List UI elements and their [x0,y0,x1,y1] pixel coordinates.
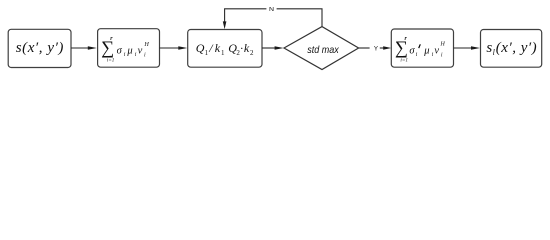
block B2 SVD sum [98,29,160,67]
svg-text:std max: std max [307,44,339,56]
svg-text:μ: μ [126,45,132,56]
svg-text:∑: ∑ [395,38,408,58]
svg-text:i=1: i=1 [400,58,408,64]
svg-text:2: 2 [250,49,254,57]
block B3 thresholds Q1/k1 Q2*k2 [188,30,262,68]
svg-text:k: k [215,41,221,55]
svg-text:ν: ν [138,45,143,56]
svg-text:1: 1 [221,49,225,57]
wire arrow A3 B3 to decision [262,47,275,49]
svg-text:i=1: i=1 [107,58,115,64]
svg-text:ν: ν [434,45,439,56]
wire arrow A5 B5 to B6 [454,47,472,49]
wire arrow A1 B1 to B2 [71,47,89,49]
wire Y branch line [359,47,370,49]
svg-text:1: 1 [205,49,209,57]
svg-text:s: s [486,40,492,56]
wire arrow Adown into B3 top [223,21,227,29]
block B5 modified sum [391,29,453,67]
svg-text:∑: ∑ [101,38,114,58]
svg-text:N: N [269,6,274,12]
wire arrow A4 Y to B5 [380,47,385,49]
decision diamond std max [284,27,359,70]
svg-text:s(x′, y′): s(x′, y′) [16,40,64,56]
svg-text:σ: σ [117,45,123,56]
svg-text:k: k [244,41,250,55]
block B1 input s(x',y') [8,29,71,67]
svg-text:(x′, y′): (x′, y′) [496,40,537,56]
block B6 output s_l(x',y') [481,30,542,68]
svg-text:μ: μ [423,45,429,56]
svg-text:H: H [439,41,445,48]
svg-text:σ: σ [409,45,415,56]
wire arrow A2 B2 to B3 [160,47,180,49]
svg-text:H: H [143,41,149,48]
wire feedback riser from diamond top [277,9,322,27]
svg-text:Y: Y [374,45,378,52]
svg-text:Q: Q [196,41,205,55]
wire feedback horizontal to drop [225,9,267,22]
